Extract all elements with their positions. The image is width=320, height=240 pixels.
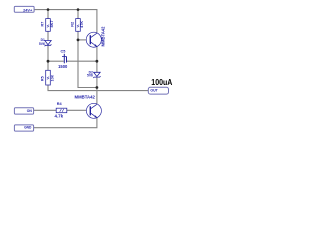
svg-text:47K: 47K bbox=[80, 21, 84, 28]
svg-text:R5: R5 bbox=[41, 76, 45, 81]
svg-text:ON: ON bbox=[27, 109, 33, 113]
svg-text:100uA: 100uA bbox=[151, 77, 172, 87]
svg-text:4K7: 4K7 bbox=[50, 21, 54, 28]
svg-text:GND: GND bbox=[24, 126, 32, 130]
svg-text:R7: R7 bbox=[40, 22, 44, 27]
svg-text:MMBTA42: MMBTA42 bbox=[75, 94, 96, 99]
svg-text:5V6: 5V6 bbox=[39, 42, 45, 46]
svg-text:5V6: 5V6 bbox=[87, 74, 93, 78]
svg-text:OUT: OUT bbox=[150, 89, 158, 93]
svg-text:10K: 10K bbox=[50, 74, 54, 81]
svg-text:4.7k: 4.7k bbox=[55, 113, 64, 118]
svg-text:MMBTA42: MMBTA42 bbox=[101, 26, 106, 47]
svg-text:24V+: 24V+ bbox=[23, 7, 33, 12]
svg-text:C5: C5 bbox=[60, 49, 65, 53]
svg-text:1500: 1500 bbox=[58, 64, 68, 69]
svg-text:R2: R2 bbox=[70, 22, 74, 27]
